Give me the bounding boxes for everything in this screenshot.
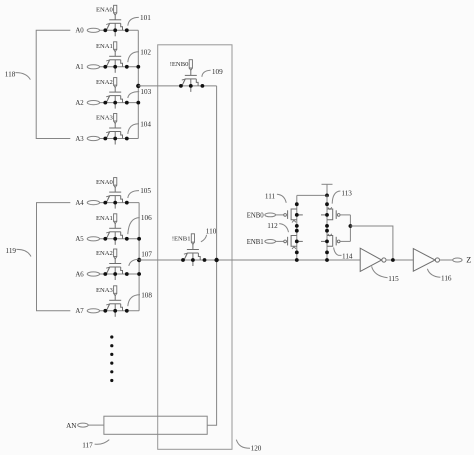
bulk stub of transistor 107 <box>114 267 116 280</box>
input pin A0 <box>87 28 99 32</box>
gate lead of transistor 106 <box>114 224 116 229</box>
bulk stub of transistor 113b <box>321 240 327 242</box>
svg-text:118: 118 <box>5 70 16 78</box>
leader of 105 <box>128 191 139 198</box>
power supply bar <box>322 183 333 185</box>
body of transistor 103 <box>110 95 121 97</box>
input pin A7 <box>87 309 99 313</box>
leader of 104 <box>128 124 139 134</box>
svg-text:104: 104 <box>140 120 151 128</box>
svg-text:107: 107 <box>141 250 152 258</box>
input pin A2 <box>87 101 99 105</box>
input pin A6 <box>87 272 99 276</box>
svg-text:A7: A7 <box>75 308 84 315</box>
svg-text:A4: A4 <box>75 200 84 207</box>
gate lead of transistor 107 <box>114 259 116 264</box>
bulk stub of transistor 111 <box>297 214 303 216</box>
leader of 114 <box>334 247 342 255</box>
svg-text:105: 105 <box>140 187 151 195</box>
junction 109/110 drains <box>214 258 218 262</box>
body of transistor 113a <box>327 209 333 220</box>
junction bus2-A5 <box>137 237 141 241</box>
input pin ENB1 <box>265 240 276 244</box>
input pin AN <box>78 423 89 427</box>
feedback wire to inverter output <box>350 226 393 260</box>
gate of transistor 101 <box>109 19 121 21</box>
gate lead of transistor 105 <box>114 188 116 193</box>
keeper bus right <box>326 195 328 260</box>
junction dots of transistor 113a <box>325 202 329 206</box>
wire ENB0 to 111 gate <box>276 214 284 216</box>
leader of 106 <box>128 218 140 235</box>
leader of 108 <box>128 295 140 306</box>
svg-text:114: 114 <box>342 252 353 260</box>
gate flag ENA3 of transistor 104 <box>114 114 117 122</box>
bulk stub of transistor 110 <box>192 253 194 266</box>
wire 113a gate to feedback <box>340 214 350 216</box>
gate flag ENA1 of transistor 106 <box>114 214 117 222</box>
gate flag ENA2 of transistor 107 <box>114 249 117 257</box>
body of transistor 105 <box>110 195 121 197</box>
junction dots of transistor 106 <box>103 237 107 241</box>
bulk stub of transistor 102 <box>114 60 116 73</box>
junction dots of transistor 105 <box>103 201 107 205</box>
svg-text:ENA1: ENA1 <box>96 215 113 222</box>
svg-text:116: 116 <box>441 275 452 283</box>
svg-text:ENA2: ENA2 <box>96 250 113 257</box>
leader of 109 <box>202 70 211 77</box>
body of transistor 101 <box>110 22 121 24</box>
body of transistor 113b <box>327 236 333 247</box>
svg-text:ENA3: ENA3 <box>96 287 114 294</box>
input pin A3 <box>87 136 99 140</box>
leader of 120 <box>236 440 250 449</box>
svg-text:112: 112 <box>267 222 278 230</box>
svg-text:111: 111 <box>265 192 276 200</box>
svg-text:101: 101 <box>140 14 151 22</box>
junction bus1-A2 <box>136 101 140 105</box>
leader of 115 <box>372 266 388 277</box>
leader of 101 <box>128 17 139 25</box>
gate of transistor 106 <box>109 227 121 229</box>
svg-text:A2: A2 <box>75 100 84 107</box>
gate flag ENA2 of transistor 103 <box>114 78 117 86</box>
junction feedback-115 output <box>391 258 395 262</box>
junction busL-output <box>295 258 299 262</box>
feedback wire vertical <box>349 215 351 242</box>
leader of 110 <box>201 235 207 242</box>
leader of 113 <box>332 191 340 204</box>
gate of transistor 109 <box>185 74 197 76</box>
body of transistor 110 <box>187 252 198 254</box>
junction dots of transistor 109 <box>179 84 183 88</box>
wire 115 to 116 <box>386 259 413 261</box>
power supply lead <box>326 184 328 195</box>
body of transistor 108 <box>110 303 121 305</box>
gate lead of transistor 109 <box>190 70 192 75</box>
junction dots of transistor 110 <box>181 258 185 262</box>
gate of transistor 110 <box>187 249 199 251</box>
svg-text:ENB0: ENB0 <box>247 212 265 219</box>
leader of 116 <box>427 269 440 278</box>
wire A7 to bus <box>100 310 140 312</box>
dashed block 120 outline <box>158 45 232 450</box>
leader of 119 <box>16 249 31 256</box>
input pin A5 <box>87 237 99 241</box>
leader of 107 <box>129 259 139 266</box>
input pin A1 <box>87 65 99 69</box>
svg-text:115: 115 <box>388 275 399 283</box>
gate of transistor 103 <box>109 91 121 93</box>
svg-text:ENA2: ENA2 <box>96 79 113 86</box>
wire A3 to bus <box>100 138 139 140</box>
gate lead of transistor 101 <box>114 15 116 19</box>
svg-text:113: 113 <box>341 190 352 198</box>
gate flag ENA0 of transistor 101 <box>114 5 117 13</box>
wire A1 to bus <box>100 66 139 68</box>
wire ENB1 to 112 gate <box>276 240 284 242</box>
bracket for group 119 <box>37 203 71 311</box>
bulk stub of transistor 104 <box>114 132 116 145</box>
body of transistor 104 <box>110 131 121 133</box>
gate lead of transistor 102 <box>114 52 116 57</box>
gate of transistor 105 <box>109 191 121 193</box>
body of transistor 107 <box>110 266 121 268</box>
bulk stub of transistor 113a <box>321 214 327 216</box>
svg-text:ENA3: ENA3 <box>96 115 114 122</box>
gate flag !ENB0 of transistor 109 <box>189 60 192 68</box>
junction supply-rail <box>325 194 329 198</box>
body of transistor 102 <box>110 59 121 61</box>
svg-text:ENA1: ENA1 <box>96 43 113 50</box>
wire 109 drain down <box>207 86 216 425</box>
bulk stub of transistor 106 <box>114 232 116 245</box>
svg-text:ENB1: ENB1 <box>247 239 264 246</box>
junction dots of transistor 103 <box>103 101 107 105</box>
gate of transistor 108 <box>109 299 121 301</box>
svg-text:110: 110 <box>206 228 217 236</box>
svg-text:108: 108 <box>141 291 152 299</box>
gate of transistor 104 <box>109 127 121 129</box>
input pin A4 <box>87 201 99 205</box>
gate lead of transistor 110 <box>192 244 194 249</box>
svg-text:A3: A3 <box>75 136 84 143</box>
body of transistor 111 <box>291 209 297 220</box>
wire A5 to bus <box>100 238 140 240</box>
svg-text:!ENB1: !ENB1 <box>172 235 191 242</box>
wire A2 to bus <box>100 102 139 104</box>
junction bus2-110 <box>137 258 141 262</box>
svg-text:117: 117 <box>82 441 93 449</box>
junction dots of transistor 111 <box>295 202 299 206</box>
svg-text:Z: Z <box>466 256 471 265</box>
ellipsis dots <box>110 335 113 338</box>
junction bus1-A1 <box>136 65 140 69</box>
junction dots of transistor 107 <box>103 272 107 276</box>
gate flag ENA3 of transistor 108 <box>114 286 117 294</box>
gate flag !ENB1 of transistor 110 <box>191 234 194 242</box>
gate of transistor 107 <box>109 263 121 265</box>
svg-text:120: 120 <box>251 445 262 453</box>
leader of 103 <box>128 92 139 98</box>
svg-text:A1: A1 <box>75 64 83 71</box>
wire 113b gate to feedback <box>340 240 350 242</box>
gate lead of transistor 104 <box>114 124 116 129</box>
wire A6 to bus <box>100 273 140 275</box>
body of transistor 109 <box>185 78 196 80</box>
body of transistor 106 <box>110 231 121 233</box>
leader of 102 <box>128 52 139 63</box>
junction bus2-A6 <box>137 272 141 276</box>
junction busM-output <box>325 258 329 262</box>
svg-text:106: 106 <box>141 214 152 222</box>
gate lead of transistor 103 <box>114 88 116 93</box>
input pin ENB0 <box>265 213 276 217</box>
bulk stub of transistor 112 <box>297 240 303 242</box>
wire A0 to bus <box>100 29 139 31</box>
wire A4 to bus <box>100 202 140 204</box>
svg-text:102: 102 <box>140 48 151 56</box>
bus wire group1 <box>137 30 139 138</box>
bracket for group 118 <box>36 30 70 138</box>
gate flag ENA1 of transistor 102 <box>114 42 117 50</box>
leader of 117 <box>95 440 110 445</box>
svg-text:103: 103 <box>140 88 151 96</box>
inverter 115 <box>360 248 382 271</box>
junction dots of transistor 102 <box>103 65 107 69</box>
bulk stub of transistor 101 <box>114 23 116 36</box>
inverter 116 <box>413 249 435 272</box>
keeper bus left <box>296 195 298 260</box>
output pin Z <box>453 258 462 262</box>
junction feedback tap <box>349 224 353 228</box>
wire AN to block 117 <box>88 424 104 426</box>
gate of transistor 102 <box>109 55 121 57</box>
svg-text:A0: A0 <box>75 28 84 35</box>
wire bus2 to keeper node <box>139 259 360 261</box>
junction bus1-109 <box>136 84 140 88</box>
wire 116 to output Z <box>440 259 453 261</box>
gate lead of transistor 108 <box>114 296 116 301</box>
gate flag ENA0 of transistor 105 <box>114 178 117 186</box>
leader of 111 <box>277 194 286 203</box>
junction dots of transistor 113b <box>325 229 329 233</box>
junction dots of transistor 112 <box>295 229 299 233</box>
svg-text:A5: A5 <box>75 236 84 243</box>
junction dots of transistor 104 <box>103 137 107 141</box>
bulk stub of transistor 103 <box>114 96 116 109</box>
bus wire group2 <box>138 203 140 311</box>
svg-text:ENA0: ENA0 <box>96 7 114 14</box>
svg-text:!ENB0: !ENB0 <box>170 61 189 68</box>
leader of 112 <box>279 224 288 233</box>
svg-text:119: 119 <box>6 247 17 255</box>
svg-text:A6: A6 <box>75 271 84 278</box>
body of transistor 112 <box>291 236 297 247</box>
svg-text:AN: AN <box>66 422 77 430</box>
bulk stub of transistor 109 <box>190 79 192 92</box>
block 117 <box>104 416 207 434</box>
svg-text:109: 109 <box>212 68 223 76</box>
bulk stub of transistor 105 <box>114 196 116 209</box>
junction dots of transistor 108 <box>103 309 107 313</box>
bulk stub of transistor 108 <box>114 304 116 317</box>
svg-text:ENA0: ENA0 <box>96 179 114 186</box>
rail wire <box>297 194 327 196</box>
leader of 118 <box>15 73 30 80</box>
wire bus1 to 109 <box>138 85 216 87</box>
junction dots of transistor 101 <box>103 28 107 32</box>
